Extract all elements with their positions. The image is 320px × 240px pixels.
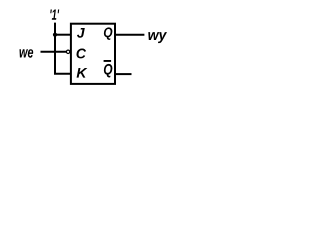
overline of Q-bar [104, 60, 112, 62]
pin label C [77, 49, 87, 59]
inverting bubble on C input [66, 50, 69, 53]
label wy [148, 32, 167, 43]
pin label J [77, 28, 85, 38]
wire Q output to wy [116, 34, 144, 36]
background [0, 0, 189, 99]
pin label Q [104, 27, 113, 40]
junction dot [53, 33, 57, 37]
pin label Q-bar [104, 64, 113, 78]
wire we to C input [41, 51, 67, 53]
flip-flop U1 body [71, 24, 115, 84]
label we [20, 49, 34, 58]
wire to J input [54, 34, 70, 36]
pin label K [77, 68, 88, 78]
node '1' (logic one) label [50, 10, 59, 20]
wire from '1' down to J and K inputs [55, 23, 70, 74]
wire stub from Q-bar output [116, 73, 132, 75]
